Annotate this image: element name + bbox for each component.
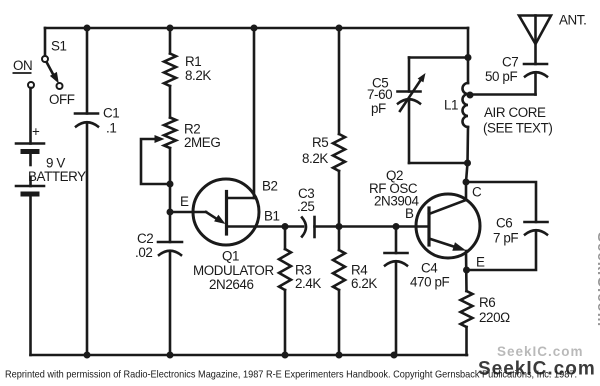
wire R3 to bottom bus bbox=[284, 290, 287, 355]
svg-text:ANT.: ANT. bbox=[559, 13, 586, 28]
resistor R1 bbox=[164, 54, 176, 87]
resistor R2 (2MEG pot) bbox=[164, 118, 176, 149]
transistor Q1 base bar bbox=[225, 192, 228, 235]
battery cell2 negative plate bbox=[23, 192, 37, 197]
wire C5 bottom bbox=[408, 100, 411, 164]
node C5 bottom bbox=[464, 160, 471, 167]
transistor Q1 circle bbox=[193, 179, 259, 245]
wire battery to bottom bus bbox=[29, 196, 32, 355]
svg-text:S1: S1 bbox=[51, 39, 67, 54]
resistor R6 bbox=[461, 291, 473, 327]
capacitor C5 plates (variable) bbox=[398, 90, 421, 93]
svg-text:C: C bbox=[472, 185, 482, 200]
node bottom bus C4 bbox=[391, 352, 398, 359]
wire C1 column top bbox=[86, 28, 89, 114]
wire C4 to bottom bus bbox=[395, 262, 398, 356]
svg-text:MODULATOR: MODULATOR bbox=[193, 263, 274, 278]
svg-text:B1: B1 bbox=[264, 209, 280, 224]
svg-text:2.4K: 2.4K bbox=[295, 276, 321, 291]
svg-text:7-60: 7-60 bbox=[367, 87, 392, 102]
node bottom bus C1 bbox=[84, 352, 91, 359]
svg-text:8.2K: 8.2K bbox=[185, 68, 211, 83]
svg-text:Q1: Q1 bbox=[222, 249, 239, 264]
svg-text:.02: .02 bbox=[135, 245, 152, 260]
wire R2 wiper feedback loop bbox=[141, 139, 170, 184]
node Q2 collector bbox=[463, 179, 470, 186]
wire C6 branch bbox=[466, 182, 536, 222]
node Q2 emitter bbox=[463, 267, 470, 274]
wire R5 column bbox=[338, 28, 341, 134]
wire S1 to top bus bbox=[44, 28, 47, 56]
svg-text:C6: C6 bbox=[496, 216, 512, 231]
switch S1 OFF contact bbox=[57, 83, 63, 89]
wire Q2 emitter down bbox=[465, 251, 468, 291]
svg-text:2MEG: 2MEG bbox=[184, 135, 220, 150]
capacitor C4 plates bbox=[385, 252, 408, 255]
node R5/R4 junction bbox=[336, 223, 343, 230]
wire bottom bus bbox=[31, 354, 468, 357]
wire R4 top bbox=[338, 227, 341, 251]
node C5 top bbox=[465, 54, 472, 61]
wire R5 to rail bbox=[338, 171, 341, 227]
resistor R4 bbox=[333, 250, 345, 290]
inductor L1 coil bbox=[463, 83, 469, 127]
svg-text:E: E bbox=[180, 194, 189, 209]
svg-text:C4: C4 bbox=[421, 261, 438, 276]
svg-text:7 pF: 7 pF bbox=[493, 231, 518, 246]
wire ON contact to battery bbox=[29, 88, 32, 144]
switch S1 ON contact bbox=[28, 82, 34, 88]
wire between battery cells bbox=[29, 154, 32, 165]
svg-text:6.2K: 6.2K bbox=[351, 276, 377, 291]
wire R4 to bottom bus bbox=[338, 290, 341, 355]
node bottom bus R3 bbox=[282, 352, 289, 359]
svg-text:.1: .1 bbox=[106, 121, 116, 136]
svg-text:8.2K: 8.2K bbox=[302, 151, 328, 166]
svg-text:220Ω: 220Ω bbox=[479, 310, 510, 325]
node bottom bus C2 bbox=[167, 352, 174, 359]
wire rail to Q2 base bbox=[339, 225, 429, 228]
wire top bus bbox=[45, 27, 468, 30]
node top bus R1 bbox=[167, 25, 174, 32]
transistor Q2 base bar bbox=[427, 208, 430, 245]
svg-text:.25: .25 bbox=[297, 199, 314, 214]
wire C5 branch top bbox=[409, 56, 468, 59]
transistor Q2 circle bbox=[416, 194, 480, 258]
wire L1 node to collector node bbox=[466, 163, 468, 182]
node top bus R5 bbox=[336, 25, 343, 32]
wire C6 bottom to emitter bbox=[467, 231, 537, 271]
node top bus C1 bbox=[84, 25, 91, 32]
svg-text:AIR CORE: AIR CORE bbox=[484, 105, 546, 120]
wire right column top bbox=[467, 28, 470, 83]
svg-text:E: E bbox=[476, 255, 485, 270]
node bottom bus R4 bbox=[336, 352, 343, 359]
wire R1 column top bbox=[169, 28, 172, 54]
svg-text:L1: L1 bbox=[444, 98, 458, 113]
svg-text:R1: R1 bbox=[185, 54, 201, 69]
svg-text:R6: R6 bbox=[479, 295, 495, 310]
svg-text:SeekIC.com: SeekIC.com bbox=[594, 232, 600, 327]
node Q1 emitter junction bbox=[167, 209, 174, 216]
svg-text:OFF: OFF bbox=[49, 92, 75, 107]
svg-text:C1: C1 bbox=[103, 106, 119, 121]
battery cell1 negative plate bbox=[23, 149, 37, 154]
switch S1 top contact bbox=[42, 56, 48, 62]
wire B1 rail bbox=[227, 225, 304, 228]
svg-text:50 pF: 50 pF bbox=[485, 69, 517, 84]
svg-text:SeekIC.com: SeekIC.com bbox=[478, 359, 596, 380]
wire C3 to R5 node bbox=[315, 225, 340, 228]
transistor Q2 collector bbox=[429, 182, 466, 214]
svg-text:R5: R5 bbox=[312, 135, 328, 150]
capacitor C6 plates bbox=[525, 221, 548, 224]
node Q2 base junction bbox=[393, 223, 400, 230]
wire C7 to antenna bbox=[534, 73, 537, 95]
capacitor C7 plates bbox=[525, 72, 547, 76]
node antenna tap bbox=[467, 92, 474, 99]
node top bus B2 bbox=[251, 25, 258, 32]
svg-text:+: + bbox=[32, 124, 40, 139]
wire B2 column bbox=[253, 28, 256, 198]
svg-text:B2: B2 bbox=[262, 179, 278, 194]
svg-text:(SEE TEXT): (SEE TEXT) bbox=[483, 121, 552, 136]
capacitor C3 plates bbox=[302, 218, 306, 237]
transistor Q2 emitter bbox=[429, 239, 455, 248]
capacitor C2 plates bbox=[158, 241, 182, 244]
battery 9V cell1 positive plate bbox=[16, 142, 44, 145]
op wire B2 into Q1 bbox=[227, 197, 254, 200]
battery cell2 positive plate bbox=[16, 185, 44, 188]
wire R6 to bottom bus bbox=[465, 327, 468, 355]
capacitor C5 arrow bbox=[400, 80, 421, 112]
node R2 wiper junction bbox=[167, 181, 174, 188]
switch S1 arm bbox=[47, 62, 55, 76]
svg-text:ON: ON bbox=[13, 58, 32, 73]
svg-text:C7: C7 bbox=[502, 55, 518, 70]
svg-text:pF: pF bbox=[371, 101, 386, 116]
wire antenna tap to C7 bbox=[470, 93, 536, 96]
wire L1 to C5 bottom node bbox=[466, 127, 469, 163]
wire C4 top bbox=[395, 227, 398, 254]
capacitor C1 plates bbox=[75, 112, 98, 115]
svg-text:BATTERY: BATTERY bbox=[28, 169, 86, 184]
wire E into Q1 bbox=[170, 211, 206, 214]
node B1 junction bbox=[282, 223, 289, 230]
svg-text:2N2646: 2N2646 bbox=[209, 277, 254, 292]
resistor R3 bbox=[279, 249, 291, 290]
wire R3 top bbox=[284, 227, 287, 250]
wire C2 to bottom bus bbox=[169, 251, 172, 355]
resistor R5 bbox=[333, 134, 345, 171]
svg-text:470 pF: 470 pF bbox=[410, 275, 450, 290]
svg-text:C2: C2 bbox=[137, 231, 153, 246]
wire C1 to bottom bus bbox=[86, 123, 89, 356]
wire R1 to R2 bbox=[169, 86, 172, 118]
wire R2 to C2/bus bbox=[169, 148, 172, 242]
svg-text:B: B bbox=[405, 206, 414, 221]
antenna ANT. bbox=[519, 16, 551, 45]
svg-text:SeekIC.com: SeekIC.com bbox=[497, 344, 584, 359]
